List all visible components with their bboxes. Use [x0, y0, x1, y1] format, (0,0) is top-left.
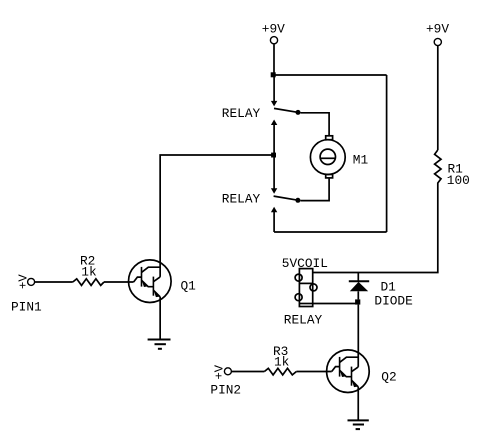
wire PIN2 to R3	[231, 371, 264, 373]
terminal +9V left	[270, 37, 277, 44]
svg-text:PIN2: PIN2	[210, 382, 241, 397]
svg-text:RELAY: RELAY	[222, 106, 261, 121]
svg-text:+9V: +9V	[262, 21, 285, 36]
wire bottom horizontal	[274, 231, 387, 233]
node junction top-left	[271, 72, 276, 77]
svg-text:1k: 1k	[274, 355, 290, 370]
wire coil bottom to diode node	[313, 303, 358, 305]
svg-text:RELAY: RELAY	[284, 313, 323, 328]
svg-text:DIODE: DIODE	[374, 293, 413, 308]
terminal PIN2	[224, 368, 231, 375]
svg-text:+V: +V	[17, 274, 31, 289]
wire contact to motor top	[301, 113, 330, 136]
wire contact to motor bottom	[300, 178, 329, 201]
ground Q2	[348, 420, 369, 429]
ground Q1	[148, 340, 171, 349]
svg-text:+V: +V	[212, 364, 226, 379]
svg-text:RELAY: RELAY	[222, 192, 261, 207]
wire Q1 collector	[160, 155, 274, 262]
wire Q1 emitter	[159, 297, 161, 340]
wire pole mid vertical	[273, 125, 275, 190]
wire R3 to Q2 base	[296, 371, 331, 373]
node junction diode anode	[355, 299, 360, 304]
diode D1	[349, 273, 369, 300]
wire right loop vertical	[386, 75, 388, 232]
wire R1 down to coil node	[313, 186, 438, 273]
transistor Q1 (darlington)	[129, 260, 172, 303]
wire R2 to Q1 base	[104, 281, 134, 283]
svg-text:100: 100	[447, 173, 470, 188]
svg-text:Q1: Q1	[181, 279, 197, 294]
relay contact bottom (pole arrow down)	[271, 188, 301, 232]
relay contact top (pole arrow down)	[271, 75, 301, 125]
node junction collector Q1	[271, 153, 276, 158]
svg-text:+9V: +9V	[426, 21, 449, 36]
svg-text:1k: 1k	[81, 264, 97, 279]
svg-text:M1: M1	[353, 152, 369, 167]
resistor R1	[435, 150, 441, 186]
transistor Q2 (darlington)	[327, 350, 370, 393]
svg-text:D1: D1	[381, 279, 397, 294]
wire +9V left drop	[273, 44, 275, 75]
resistor R3	[264, 368, 296, 375]
svg-text:5VCOIL: 5VCOIL	[282, 256, 328, 271]
svg-text:Q2: Q2	[381, 369, 396, 384]
terminal PIN1	[28, 278, 35, 285]
terminal +9V right	[434, 38, 441, 45]
wire PIN1 to R2	[34, 281, 72, 283]
wire Q2 emitter	[357, 387, 359, 421]
motor M1	[310, 136, 345, 178]
relay coil K1	[295, 269, 317, 307]
wire top horizontal	[273, 74, 386, 76]
wire +9V right drop	[437, 46, 439, 151]
wire Q2 collector	[357, 305, 359, 352]
svg-text:PIN1: PIN1	[11, 299, 42, 314]
resistor R2	[73, 279, 104, 286]
